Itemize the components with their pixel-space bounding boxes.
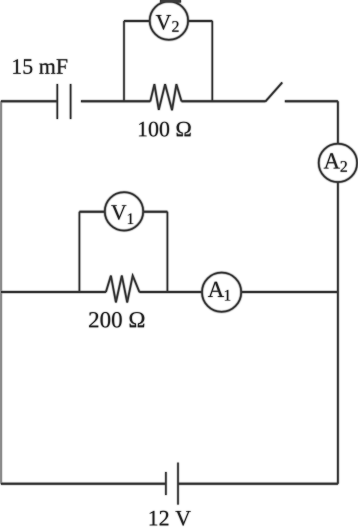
label V2 (156, 15, 171, 30)
label A1 (208, 282, 224, 297)
wire: top horizontal from capacitor to resistor (81, 100, 150, 102)
wire: V2 branch horizontal left (124, 20, 150, 22)
wire: V1 branch right vertical (166, 212, 168, 292)
wire: middle horizontal between resistor and A1 (139, 291, 201, 293)
resistor R 100ohm zigzag (150, 84, 181, 110)
wire: V1 branch horizontal right (144, 211, 168, 213)
wire: bottom horizontal from battery to right corner (178, 483, 338, 485)
battery 12V short plate (165, 472, 167, 495)
label 12 V (150, 511, 191, 526)
label 200 ohm (89, 312, 144, 328)
resistor R 200ohm zigzag (106, 276, 139, 303)
label A2 (324, 153, 340, 168)
ammeter A2 circle (319, 144, 357, 182)
switch S1 blade (265, 83, 282, 102)
capacitor 15 mF plate 2 (70, 84, 72, 119)
wire: top horizontal left segment to capacitor (1, 100, 57, 102)
wire: top horizontal from switch to right corner (285, 100, 338, 102)
wire: top horizontal from resistor to switch (182, 100, 266, 102)
wire: V1 branch left vertical (78, 212, 80, 292)
crop artifact bar above V2 (160, 0, 181, 3)
wire: right vertical below A2 to bottom corner (337, 182, 339, 484)
ammeter A1 circle (202, 273, 241, 312)
wire: middle horizontal left segment (1, 291, 106, 293)
wire: right vertical top (to ammeter A2) (337, 101, 339, 144)
label 15 mF (13, 59, 67, 74)
voltmeter V1 circle (105, 192, 143, 230)
wire: V2 branch right vertical (211, 21, 213, 101)
label V1 (111, 205, 126, 220)
label 100 ohm (139, 122, 191, 137)
wire: left vertical (0, 101, 2, 484)
wire: V2 branch left vertical (123, 21, 125, 101)
battery 12V long plate (177, 463, 179, 505)
voltmeter V2 circle (150, 1, 188, 39)
wire: middle horizontal from A1 to right vertical (242, 291, 338, 293)
capacitor 15 mF plate 1 (56, 84, 58, 119)
wire: V2 branch horizontal right (188, 20, 212, 22)
wire: bottom horizontal left segment to battery (1, 483, 166, 485)
wire: V1 branch horizontal left (79, 211, 104, 213)
